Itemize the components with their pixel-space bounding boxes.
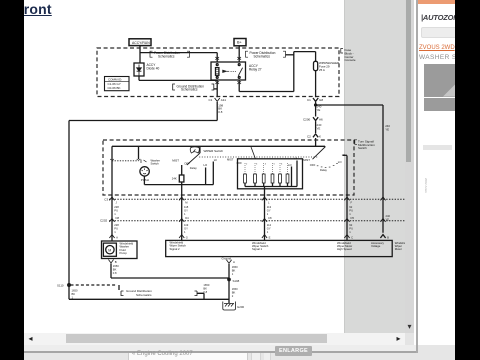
svg-text:Voltage: Voltage xyxy=(371,244,381,248)
svg-text:B+: B+ xyxy=(237,41,243,45)
svg-text:24K: 24K xyxy=(172,176,177,180)
svg-text:113: 113 xyxy=(267,205,272,209)
svg-text:BK: BK xyxy=(232,290,236,294)
svg-text:D8: D8 xyxy=(116,216,120,220)
svg-text:Schematics: Schematics xyxy=(181,88,198,92)
svg-text:Relay 27: Relay 27 xyxy=(249,68,262,72)
svg-text:A: A xyxy=(116,236,118,240)
svg-text:1650: 1650 xyxy=(113,264,119,268)
svg-text:MIST: MIST xyxy=(303,158,310,162)
svg-text:112: 112 xyxy=(267,223,272,227)
svg-text:C200: C200 xyxy=(303,118,311,122)
svg-text:A11: A11 xyxy=(221,98,226,102)
svg-text:HI: HI xyxy=(295,157,298,161)
svg-text:Console: Console xyxy=(345,58,356,62)
svg-text:ACCY/RUN: ACCY/RUN xyxy=(132,41,150,45)
svg-text:A6: A6 xyxy=(319,118,323,122)
svg-text:G: G xyxy=(186,236,188,240)
svg-text:C2: C2 xyxy=(307,135,311,139)
svg-text:1650: 1650 xyxy=(232,287,238,291)
svg-text:25 A: 25 A xyxy=(319,68,325,72)
svg-text:E: E xyxy=(269,236,271,240)
svg-text:PU: PU xyxy=(349,227,353,231)
svg-text:G200: G200 xyxy=(237,305,244,309)
svg-text:WIPER Switch: WIPER Switch xyxy=(204,149,224,153)
svg-text:0.8: 0.8 xyxy=(218,110,222,114)
svg-text:4: 4 xyxy=(265,164,267,166)
svg-text:Delay: Delay xyxy=(190,166,198,170)
svg-text:HI: HI xyxy=(214,158,217,162)
svg-text:C3: C3 xyxy=(104,197,108,201)
svg-text:119: 119 xyxy=(184,223,189,227)
svg-text:0.8: 0.8 xyxy=(203,290,207,294)
svg-text:MIST: MIST xyxy=(172,159,179,163)
svg-text:C0-66 BK: C0-66 BK xyxy=(108,86,121,90)
svg-text:High Speed: High Speed xyxy=(337,247,352,251)
svg-text:PU: PU xyxy=(114,209,118,213)
svg-text:M: M xyxy=(108,248,111,252)
svg-text:Switch: Switch xyxy=(151,162,160,166)
svg-text:YE: YE xyxy=(386,217,390,221)
svg-text:Delay: Delay xyxy=(320,168,328,172)
svg-text:HI: HI xyxy=(342,153,345,157)
svg-text:B: B xyxy=(115,260,117,264)
svg-text:92: 92 xyxy=(349,205,352,209)
svg-text:Diode 40: Diode 40 xyxy=(147,66,160,70)
svg-text:OFF: OFF xyxy=(310,163,316,167)
svg-text:C1: C1 xyxy=(307,98,311,102)
svg-text:Signal 2: Signal 2 xyxy=(170,247,181,251)
svg-text:1650: 1650 xyxy=(203,283,209,287)
svg-text:Pump: Pump xyxy=(120,251,128,255)
svg-text:D4: D4 xyxy=(185,216,189,220)
svg-text:C8: C8 xyxy=(268,216,272,220)
svg-text:Motor: Motor xyxy=(395,247,402,251)
svg-text:5: 5 xyxy=(274,164,276,166)
svg-text:3: 3 xyxy=(256,164,258,166)
svg-text:S108: S108 xyxy=(233,279,240,283)
svg-text:6: 6 xyxy=(281,164,283,166)
svg-text:PU: PU xyxy=(349,209,353,213)
svg-text:F: F xyxy=(351,200,353,204)
svg-text:1650: 1650 xyxy=(232,265,238,269)
svg-text:GY: GY xyxy=(184,227,188,231)
svg-text:LO: LO xyxy=(288,163,292,167)
svg-text:Switch: Switch xyxy=(358,146,367,150)
svg-text:LO: LO xyxy=(338,160,343,164)
svg-text:YE: YE xyxy=(317,126,321,130)
svg-text:PUSH: PUSH xyxy=(141,178,149,182)
svg-text:0.8: 0.8 xyxy=(113,271,117,275)
svg-text:C202: C202 xyxy=(100,219,108,223)
svg-text:BK: BK xyxy=(232,268,236,272)
svg-text:228: 228 xyxy=(114,205,119,209)
svg-text:Schematics: Schematics xyxy=(136,293,152,297)
svg-text:MIST: MIST xyxy=(227,158,234,162)
svg-text:C1: C1 xyxy=(209,98,213,102)
svg-text:2: 2 xyxy=(246,164,248,166)
svg-text:YE: YE xyxy=(385,128,389,132)
svg-text:S110: S110 xyxy=(57,283,64,287)
svg-text:Schematics: Schematics xyxy=(254,55,271,59)
svg-text:K: K xyxy=(319,135,321,139)
svg-text:D5: D5 xyxy=(351,216,355,220)
svg-text:BK: BK xyxy=(203,286,207,290)
svg-text:BK: BK xyxy=(72,292,76,296)
svg-text:118: 118 xyxy=(184,205,189,209)
svg-text:B: B xyxy=(387,236,389,240)
svg-text:LO: LO xyxy=(204,163,209,167)
svg-text:GY: GY xyxy=(184,209,188,213)
svg-text:Signal 1: Signal 1 xyxy=(252,247,263,251)
svg-text:COMM ID:: COMM ID: xyxy=(108,77,122,81)
svg-text:PU: PU xyxy=(114,227,118,231)
svg-text:OFF: OFF xyxy=(237,161,243,165)
svg-text:BK: BK xyxy=(113,267,117,271)
svg-text:92: 92 xyxy=(349,223,352,227)
svg-text:OFF: OFF xyxy=(184,162,190,166)
svg-text:A: A xyxy=(233,260,235,264)
svg-text:Schematics: Schematics xyxy=(158,55,175,59)
svg-text:Ground: Ground xyxy=(222,257,232,261)
svg-text:GY: GY xyxy=(267,227,271,231)
svg-text:G8: G8 xyxy=(319,98,323,102)
svg-text:L: L xyxy=(268,200,270,204)
svg-text:M: M xyxy=(185,200,188,204)
svg-text:J: J xyxy=(116,200,118,204)
svg-text:GY: GY xyxy=(267,209,271,213)
svg-text:YE: YE xyxy=(317,108,321,112)
svg-text:1650: 1650 xyxy=(72,289,78,293)
svg-text:C: C xyxy=(351,236,353,240)
svg-text:228: 228 xyxy=(114,223,119,227)
